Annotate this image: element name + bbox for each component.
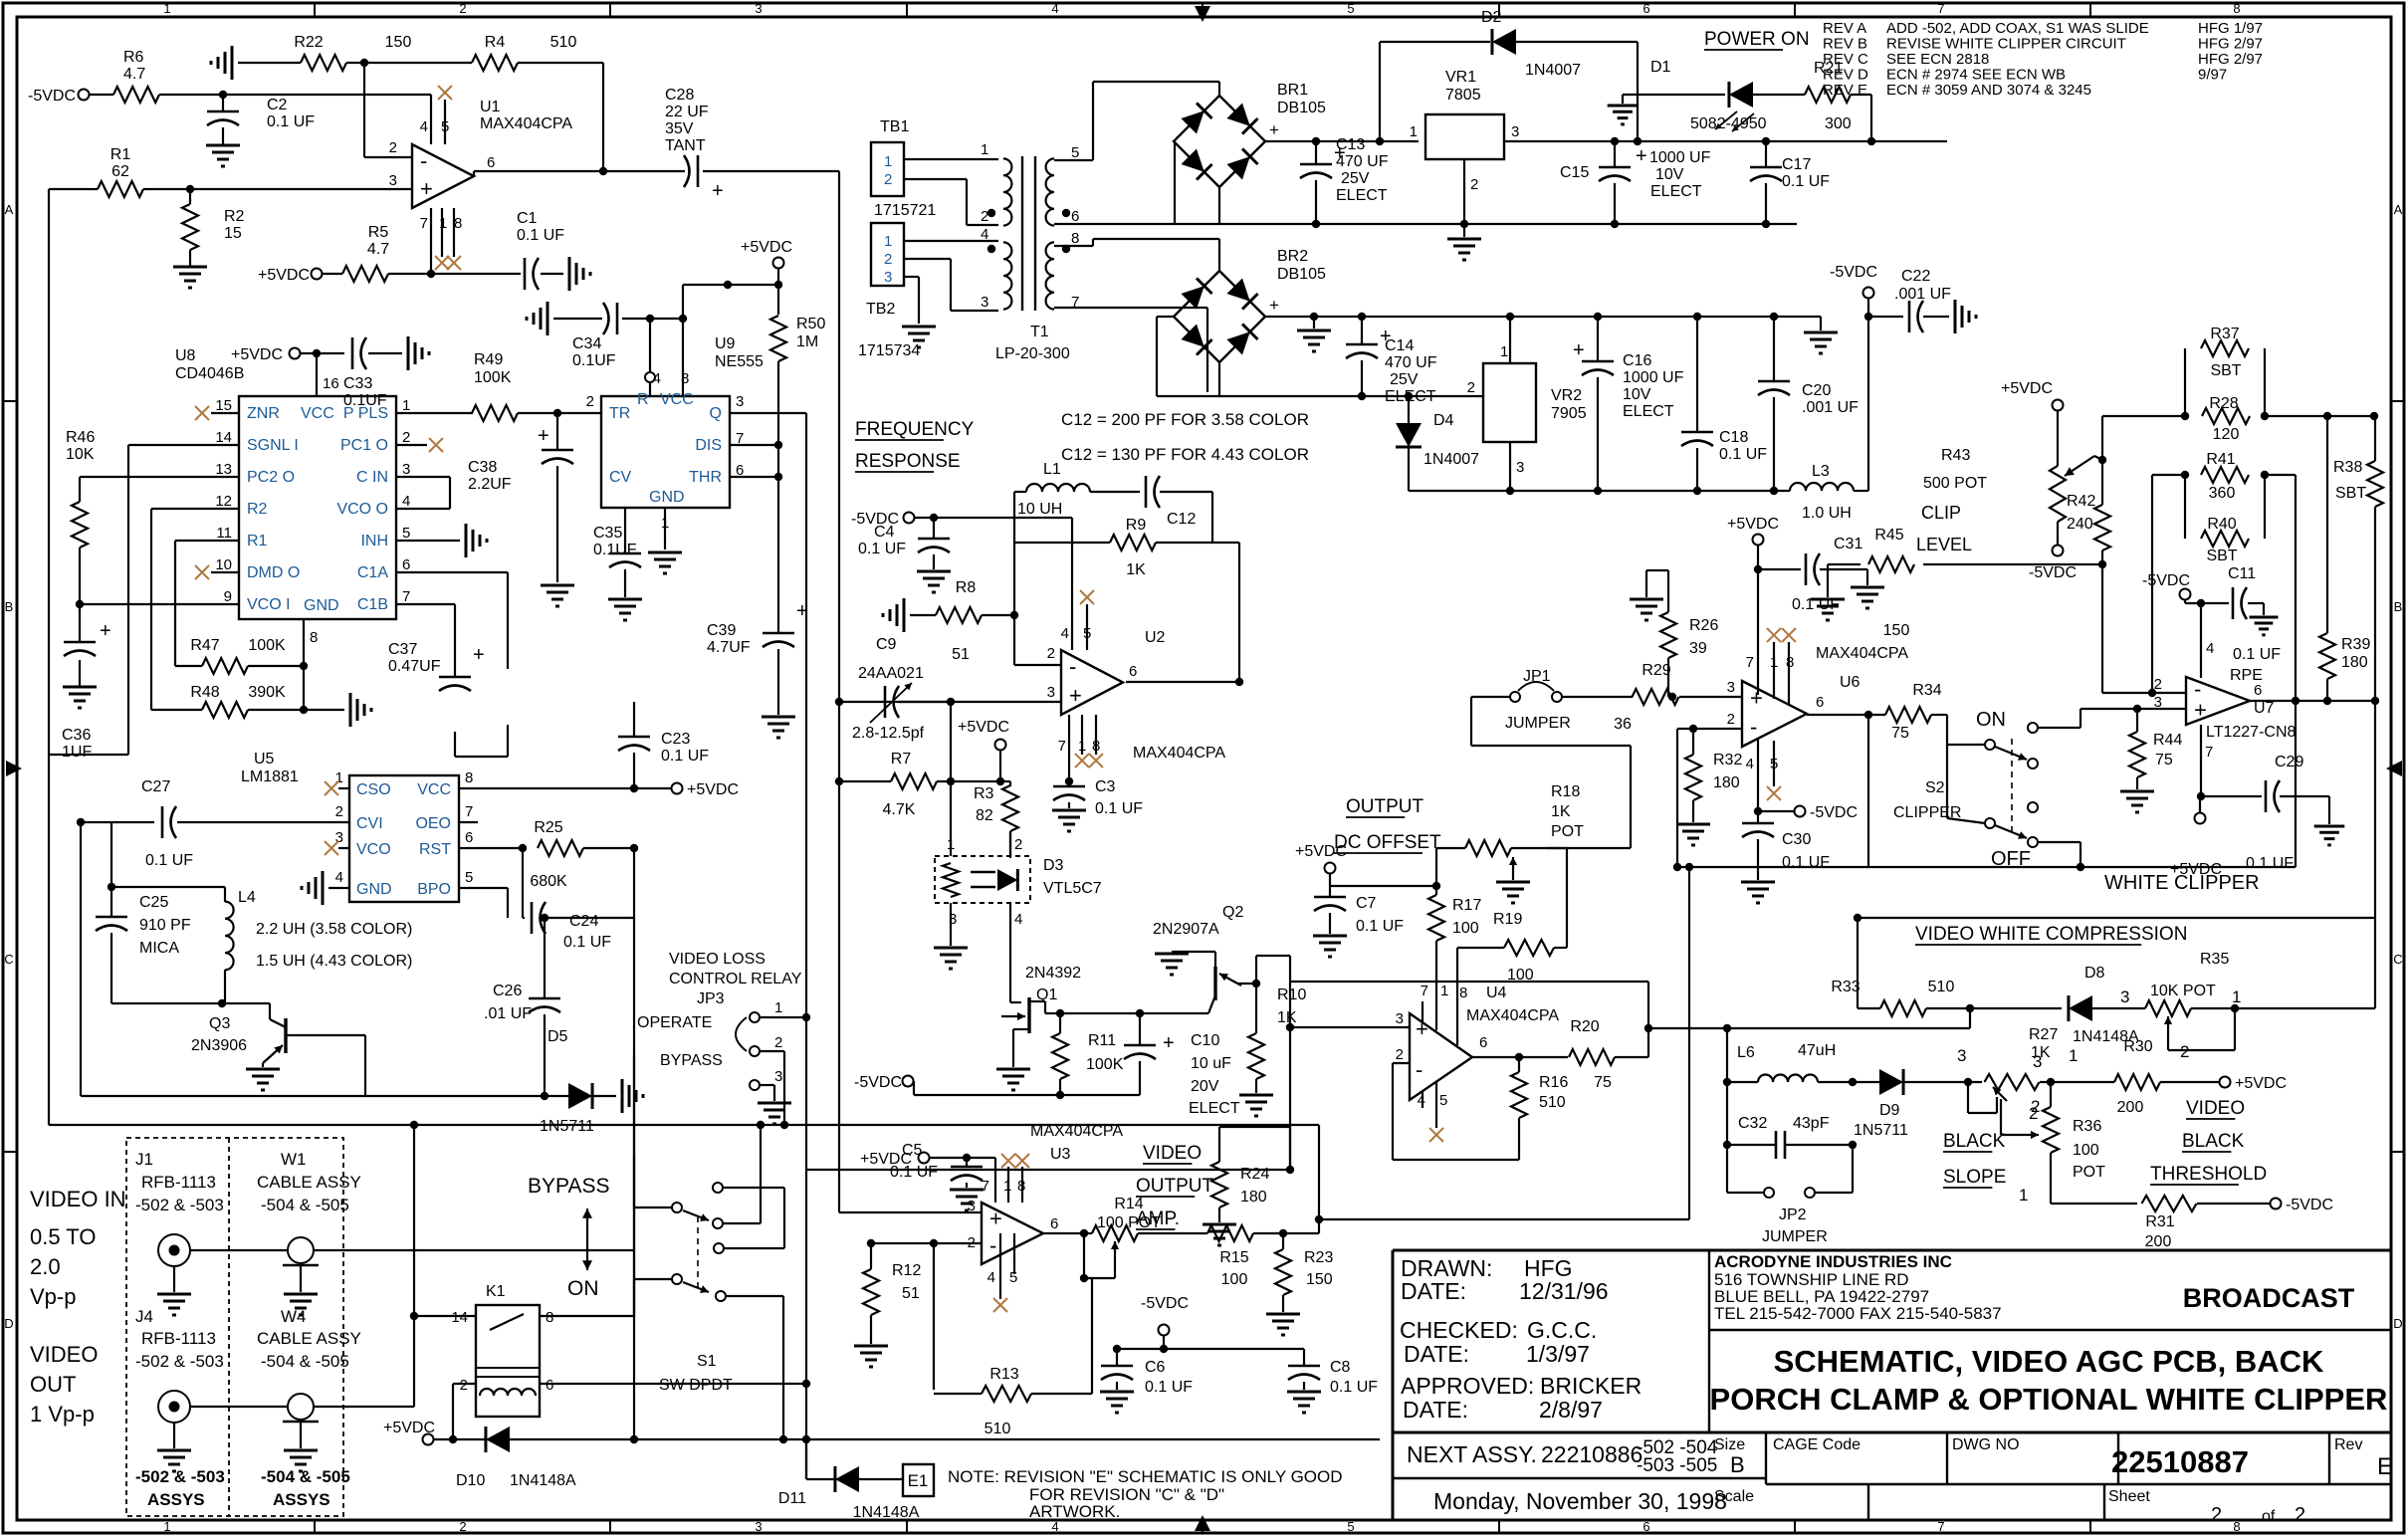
capacitor C11	[2228, 565, 2256, 619]
Q1 source gnd	[1013, 1029, 1029, 1067]
svg-text:Q3: Q3	[209, 1015, 230, 1032]
svg-text:2N4392: 2N4392	[1025, 965, 1081, 982]
svg-text:VIDEO LOSS: VIDEO LOSS	[669, 951, 766, 968]
svg-text:2: 2	[586, 393, 594, 410]
U9 pin4 bubble	[645, 372, 655, 382]
U6 pin4 lead	[1757, 738, 1759, 811]
svg-text:C22: C22	[1901, 268, 1930, 285]
junction U7 minus	[2148, 689, 2156, 697]
junction compression left	[1854, 914, 1861, 922]
svg-text:7: 7	[1421, 983, 1428, 999]
junction R41 posts	[2181, 471, 2269, 479]
R16 bottom loop	[1393, 1063, 1519, 1160]
junction C30	[1754, 807, 1762, 815]
svg-text:+: +	[100, 620, 111, 642]
svg-text:6: 6	[402, 556, 410, 573]
svg-text:470 UF: 470 UF	[1336, 153, 1389, 170]
top center arrow	[1195, 6, 1210, 22]
svg-text:BYPASS: BYPASS	[660, 1052, 723, 1069]
svg-text:CABLE ASSY: CABLE ASSY	[257, 1329, 361, 1348]
svg-text:RFB-1113: RFB-1113	[141, 1329, 216, 1348]
svg-text:OUT: OUT	[30, 1372, 76, 1397]
R35 right	[2191, 1007, 2375, 1009]
svg-text:REV A: REV A	[1823, 20, 1866, 37]
junction U8 vcc	[313, 349, 321, 357]
U5 pin4 wire	[328, 887, 349, 889]
svg-text:VIDEO: VIDEO	[2186, 1098, 2245, 1119]
U7 misc labels	[2230, 646, 2281, 684]
R11 stems	[1059, 1013, 1061, 1095]
resistor R39	[2319, 633, 2370, 679]
svg-text:C24: C24	[569, 913, 598, 930]
capacitor C3	[1053, 778, 1143, 817]
ground W4	[284, 1450, 318, 1471]
svg-text:0.1 UF: 0.1 UF	[1095, 800, 1143, 817]
connector W1	[283, 1237, 319, 1265]
D11 branch	[806, 1439, 834, 1479]
resistor R41	[2201, 451, 2249, 502]
R42 stems	[2101, 460, 2103, 693]
svg-text:3: 3	[736, 393, 744, 410]
resistor R4	[472, 34, 576, 71]
resistor R16	[1511, 1072, 1568, 1118]
ground Q1	[996, 1069, 1030, 1090]
BR2 plus to gnd bus	[1266, 316, 1821, 318]
JP2 posts	[1727, 1145, 1853, 1193]
svg-text:C26: C26	[493, 983, 522, 999]
svg-text:6: 6	[1642, 1519, 1649, 1534]
junction D2 ends	[1376, 137, 1642, 145]
ground C38	[541, 585, 574, 606]
svg-text:THR: THR	[689, 469, 722, 486]
capacitor C37 polarized	[388, 641, 485, 691]
C27 wires	[81, 821, 349, 823]
svg-text:POWER ON: POWER ON	[1704, 29, 1810, 50]
junction K1 pin14	[410, 1121, 418, 1320]
svg-text:C12 = 130 PF FOR 4.43 COLOR: C12 = 130 PF FOR 4.43 COLOR	[1061, 445, 1309, 464]
svg-text:4: 4	[1051, 1, 1058, 16]
wire inv input drop	[364, 63, 412, 157]
IC U8 CD4046B box	[175, 347, 396, 619]
svg-text:U3: U3	[1050, 1146, 1071, 1163]
svg-text:14: 14	[215, 429, 232, 446]
svg-text:360: 360	[2209, 485, 2236, 502]
svg-text:2: 2	[389, 139, 397, 156]
junction U7 plus	[2133, 705, 2141, 713]
svg-text:0.1 UF: 0.1 UF	[145, 852, 193, 869]
video loss bus down	[633, 918, 635, 1316]
svg-text:8: 8	[2233, 1519, 2240, 1534]
potentiometer R43	[1916, 447, 2094, 554]
U6 pin8 lead	[1788, 642, 1790, 704]
svg-text:MAX404CPA: MAX404CPA	[1816, 645, 1908, 662]
D9 right	[1902, 1081, 1982, 1083]
capacitor C6	[1101, 1359, 1193, 1396]
svg-text:Sheet: Sheet	[2108, 1488, 2150, 1505]
svg-text:7: 7	[2205, 744, 2213, 761]
C10 stems	[1139, 1013, 1141, 1095]
svg-text:D11: D11	[778, 1490, 806, 1507]
svg-text:2: 2	[1727, 711, 1735, 728]
svg-text:1.0 UH: 1.0 UH	[1802, 505, 1852, 522]
connector W4	[283, 1394, 319, 1422]
svg-text:GND: GND	[649, 489, 685, 506]
svg-text:+5VDC: +5VDC	[231, 346, 283, 363]
svg-text:C25: C25	[139, 894, 168, 911]
svg-text:2: 2	[335, 803, 343, 820]
junction R29/R26	[1668, 693, 1676, 701]
resistor R2	[182, 204, 245, 250]
BLACK SLOPE heading	[1943, 1131, 2006, 1188]
U8 pin10 stub	[211, 571, 239, 573]
R36 wiper wire	[2001, 1099, 2025, 1135]
R27 labels	[1957, 1026, 2078, 1065]
svg-text:ON: ON	[1976, 709, 2006, 731]
R39 post	[2326, 416, 2328, 701]
K1 pin labels	[451, 1309, 553, 1394]
svg-text:8: 8	[1786, 654, 1794, 671]
svg-text:W4: W4	[281, 1307, 307, 1326]
junction R35 right	[2231, 1004, 2239, 1012]
R23 stems	[1282, 1233, 1284, 1312]
resistor R50	[770, 316, 825, 361]
svg-text:R3: R3	[974, 785, 994, 802]
svg-text:7: 7	[1937, 1, 1944, 16]
junction C18 top	[1693, 313, 1701, 321]
svg-text:LP-20-300: LP-20-300	[995, 345, 1070, 362]
capacitor C17	[1750, 156, 1830, 190]
svg-text:R7: R7	[891, 751, 912, 768]
junction VR1 gnd	[1460, 220, 1468, 228]
connector W1 labels	[257, 1150, 361, 1214]
clipper output return	[1315, 863, 1693, 1223]
svg-text:-502 & -503: -502 & -503	[135, 1196, 224, 1214]
svg-text:7: 7	[465, 803, 473, 820]
R16 stems	[1518, 1057, 1520, 1160]
svg-text:L3: L3	[1812, 463, 1830, 480]
junction R33/D8	[1966, 1004, 1974, 1012]
svg-text:U4: U4	[1486, 985, 1507, 1001]
svg-text:BLACK: BLACK	[1943, 1131, 2006, 1152]
x-mark U1 pin5	[438, 86, 452, 100]
svg-text:1000 UF: 1000 UF	[1649, 149, 1711, 166]
svg-text:A: A	[5, 202, 14, 217]
U4 pin7 lead	[1422, 1001, 1423, 1023]
IC U5 LM1881 box	[241, 751, 459, 902]
capacitor C28	[665, 87, 724, 202]
svg-text:C20: C20	[1802, 382, 1831, 399]
svg-text:GND: GND	[356, 881, 392, 898]
svg-text:RESPONSE: RESPONSE	[855, 451, 961, 472]
U8 left pin names	[215, 397, 300, 613]
transformer T1 secondary lower	[1046, 230, 1080, 311]
C12 notes	[1061, 410, 1309, 464]
capacitor C36 polarized	[62, 620, 111, 761]
junction R1/R2	[186, 185, 194, 193]
svg-text:43pF: 43pF	[1793, 1115, 1830, 1132]
svg-text:150: 150	[385, 34, 412, 51]
+5VDC terminal R30	[2220, 1075, 2288, 1092]
x-mark U6 pin5	[1767, 786, 1781, 800]
transistor Q3 2N3906	[191, 1015, 286, 1063]
svg-text:-: -	[989, 1233, 996, 1258]
U3 out wire	[1043, 1232, 1092, 1234]
wire R1 to U1 pin3	[143, 188, 412, 190]
svg-text:180: 180	[2341, 654, 2368, 671]
potentiometer R36	[2025, 1107, 2059, 1153]
U5 pin3 stub	[338, 847, 349, 849]
svg-text:1 Vp-p: 1 Vp-p	[30, 1402, 95, 1427]
svg-text:VR2: VR2	[1551, 387, 1582, 404]
svg-text:Size: Size	[1714, 1436, 1745, 1453]
diode D10	[456, 1427, 576, 1489]
svg-text:8: 8	[1071, 230, 1079, 247]
svg-text:2N3906: 2N3906	[191, 1037, 247, 1054]
svg-text:75: 75	[1594, 1074, 1612, 1091]
+5VDC terminal C5	[860, 1151, 930, 1168]
R32 stems	[1692, 729, 1694, 822]
JP3 pin1 wire	[761, 1016, 806, 1018]
JP3 pin2 wire	[761, 1051, 784, 1125]
svg-text:MICA: MICA	[139, 940, 179, 957]
svg-text:22 UF: 22 UF	[665, 104, 709, 120]
S2 on wire	[2039, 709, 2080, 728]
svg-text:U2: U2	[1145, 629, 1166, 646]
svg-text:R24: R24	[1240, 1166, 1269, 1183]
svg-text:0.1 UF: 0.1 UF	[858, 541, 906, 557]
C5 wire	[930, 1158, 995, 1185]
svg-text:8: 8	[310, 629, 318, 646]
voltage regulator VR1 box	[1410, 69, 1520, 193]
svg-text:10 uF: 10 uF	[1191, 1055, 1231, 1072]
svg-text:ECN # 3059 AND 3074 & 3245: ECN # 3059 AND 3074 & 3245	[1886, 82, 2091, 99]
C11 wires	[2185, 600, 2264, 615]
svg-text:680K: 680K	[530, 873, 567, 890]
+5VDC terminal C7	[1295, 843, 1347, 874]
svg-text:CAGE Code: CAGE Code	[1773, 1436, 1861, 1453]
capacitor C33	[343, 337, 387, 409]
junction U5 vcc	[630, 784, 638, 792]
resistor R47	[190, 637, 286, 674]
U9 pin1 lead	[664, 508, 666, 549]
title block grid	[1393, 1250, 2391, 1520]
-5VDC input terminal	[28, 88, 90, 105]
S1 bypass U link	[724, 1188, 784, 1248]
capacitor C35	[593, 525, 641, 567]
svg-text:2: 2	[2154, 676, 2162, 693]
svg-text:W1: W1	[281, 1150, 307, 1169]
svg-text:HFG 2/97: HFG 2/97	[2198, 51, 2263, 68]
ground R18	[1496, 882, 1530, 903]
svg-text:C37: C37	[388, 641, 417, 658]
junction U9 vcc node	[646, 281, 732, 323]
R29 to U6	[1679, 696, 1742, 698]
svg-text:R13: R13	[989, 1366, 1018, 1383]
D10 wire	[434, 1438, 486, 1440]
D8 to R35	[2090, 1007, 2145, 1009]
svg-text:RST: RST	[419, 841, 451, 858]
U8 pin16 label	[323, 375, 339, 392]
svg-text:10K POT: 10K POT	[2150, 983, 2216, 999]
U9 pin4/8 top wires	[650, 319, 683, 396]
svg-text:R11: R11	[1088, 1032, 1116, 1049]
U8 pin8 label	[310, 629, 318, 646]
svg-text:180: 180	[1713, 774, 1740, 791]
junction R50 top	[774, 281, 782, 289]
svg-text:1: 1	[402, 397, 410, 414]
svg-text:THRESHOLD: THRESHOLD	[2150, 1164, 2267, 1185]
S2 labels	[1893, 779, 2031, 870]
BR1 plus rail	[1265, 140, 1419, 142]
VR2 pin3 lead	[1509, 442, 1511, 491]
svg-text:OEO: OEO	[415, 815, 451, 832]
svg-text:ELECT: ELECT	[1336, 187, 1388, 204]
ground R45	[1811, 599, 1845, 620]
svg-text:S1: S1	[697, 1353, 717, 1370]
svg-text:R35: R35	[2200, 951, 2229, 968]
R31 right	[2197, 1203, 2270, 1205]
wire C1 to gnd	[541, 273, 563, 275]
svg-text:BYPASS: BYPASS	[528, 1175, 609, 1198]
R35 pin2 label	[2180, 1042, 2189, 1061]
svg-text:1.5 UH (4.43 COLOR): 1.5 UH (4.43 COLOR)	[256, 953, 412, 970]
capacitor C22	[1894, 268, 1951, 332]
svg-text:MAX404CPA: MAX404CPA	[1133, 745, 1225, 762]
connector J1 BNC	[158, 1234, 190, 1266]
revision history text	[1823, 20, 2263, 99]
svg-text:BROADCAST: BROADCAST	[2183, 1283, 2355, 1313]
svg-text:B: B	[5, 599, 14, 614]
junction DIS/THR	[774, 441, 782, 481]
svg-text:TANT: TANT	[665, 137, 706, 154]
junction U2 out	[1235, 678, 1243, 686]
C26 stems	[544, 918, 546, 1096]
svg-text:-502 & -503: -502 & -503	[135, 1352, 224, 1371]
svg-text:PORCH CLAMP & OPTIONAL WHITE C: PORCH CLAMP & OPTIONAL WHITE CLIPPER	[1710, 1382, 2388, 1417]
VIDEO OUT labels	[30, 1342, 98, 1427]
+5VDC terminal C29	[2170, 813, 2222, 879]
ground R22	[211, 46, 232, 80]
R30 right	[2160, 1081, 2219, 1083]
C39 stems	[777, 617, 779, 715]
R49 to U9 TR	[518, 412, 601, 414]
svg-text:BPO: BPO	[417, 881, 451, 898]
junction R23	[1279, 1229, 1287, 1237]
switch S1 pole A	[672, 1183, 723, 1228]
C6 rail	[1117, 1336, 1304, 1349]
svg-text:VIDEO: VIDEO	[30, 1342, 98, 1367]
svg-text:3: 3	[2120, 988, 2129, 1006]
ground R26	[1630, 599, 1663, 620]
svg-text:NE555: NE555	[715, 353, 764, 370]
svg-text:0.1 UF: 0.1 UF	[2233, 646, 2281, 663]
svg-text:5: 5	[1347, 1519, 1354, 1534]
svg-text:14: 14	[451, 1309, 468, 1326]
D2 loop	[1380, 42, 1638, 141]
R24 stems	[1219, 1127, 1290, 1222]
svg-text:C28: C28	[665, 87, 694, 104]
resistor R15	[1207, 1225, 1253, 1288]
svg-text:P PLS: P PLS	[343, 405, 388, 422]
op-amp U1	[412, 99, 572, 208]
J4 ground lead	[173, 1423, 175, 1448]
ground R8	[883, 598, 904, 632]
svg-text:10V: 10V	[1655, 166, 1684, 183]
svg-text:R32: R32	[1713, 752, 1742, 768]
c29 term stub	[2199, 796, 2201, 812]
-5VDC supply terminal	[1830, 264, 1877, 299]
svg-text:R37: R37	[2210, 326, 2239, 342]
R41 left loop	[2152, 475, 2185, 693]
BYPASS label big	[528, 1175, 609, 1198]
junction R25 left	[519, 844, 527, 852]
svg-text:0.1 UF: 0.1 UF	[267, 113, 315, 130]
U2 pin numbers	[1047, 625, 1138, 755]
svg-text:C38: C38	[468, 459, 497, 476]
compression top loop	[1858, 918, 2375, 1008]
svg-text:0.1 UF: 0.1 UF	[661, 748, 709, 765]
K1 pin2 wire	[453, 1384, 476, 1439]
junction R47 pin8	[300, 662, 308, 670]
svg-text:150: 150	[1883, 622, 1910, 639]
svg-text:24AA021: 24AA021	[858, 665, 924, 682]
svg-text:CABLE ASSY: CABLE ASSY	[257, 1173, 361, 1192]
svg-text:0.1 UF: 0.1 UF	[1330, 1379, 1378, 1396]
svg-text:R5: R5	[368, 224, 389, 241]
D4 stems	[1408, 396, 1410, 491]
svg-text:82: 82	[976, 807, 993, 824]
svg-text:4: 4	[1014, 911, 1022, 928]
svg-text:2: 2	[1047, 645, 1055, 662]
svg-text:0.5 TO: 0.5 TO	[30, 1224, 96, 1249]
C35 stems	[624, 508, 626, 597]
svg-text:ASSYS: ASSYS	[147, 1490, 205, 1509]
svg-text:SGNL I: SGNL I	[247, 437, 299, 454]
C16 stems	[1597, 317, 1599, 491]
svg-text:5: 5	[1770, 756, 1778, 772]
svg-text:16: 16	[323, 375, 339, 392]
junction C26 top	[541, 914, 548, 922]
svg-text:R40: R40	[2207, 516, 2236, 533]
capacitor C29	[2246, 754, 2303, 872]
svg-text:100K: 100K	[474, 369, 512, 386]
wire R1 left to feedback bus	[49, 189, 98, 1125]
C24 loop	[523, 848, 634, 918]
ground R48	[350, 693, 371, 727]
junction -5 nodes	[1506, 487, 1778, 495]
W4 ground lead	[300, 1422, 302, 1448]
svg-text:6: 6	[1642, 1, 1649, 16]
C25 stems	[110, 887, 112, 1003]
transformer T1 primary upper	[981, 141, 1011, 226]
U9 pin names	[609, 391, 722, 506]
svg-text:10V: 10V	[1623, 386, 1651, 403]
junction C32	[1849, 1141, 1857, 1149]
capacitor C16 polarized	[1573, 339, 1684, 420]
relay drive bus	[508, 1438, 1380, 1440]
svg-text:R44: R44	[2153, 732, 2182, 749]
U8 pin11 wire	[175, 541, 239, 666]
svg-text:U6: U6	[1840, 674, 1861, 691]
note text	[948, 1467, 1343, 1521]
svg-text:-5VDC: -5VDC	[2142, 572, 2190, 589]
wire C28 to bus	[703, 171, 839, 1212]
svg-text:-5VDC: -5VDC	[1810, 804, 1858, 821]
svg-text:ADD -502, ADD COAX, S1 WAS SLI: ADD -502, ADD COAX, S1 WAS SLIDE	[1886, 20, 2149, 37]
U2 pin7 lead	[1068, 715, 1070, 771]
VR1 out rail	[1504, 140, 1947, 142]
resistor R10	[1248, 987, 1306, 1079]
